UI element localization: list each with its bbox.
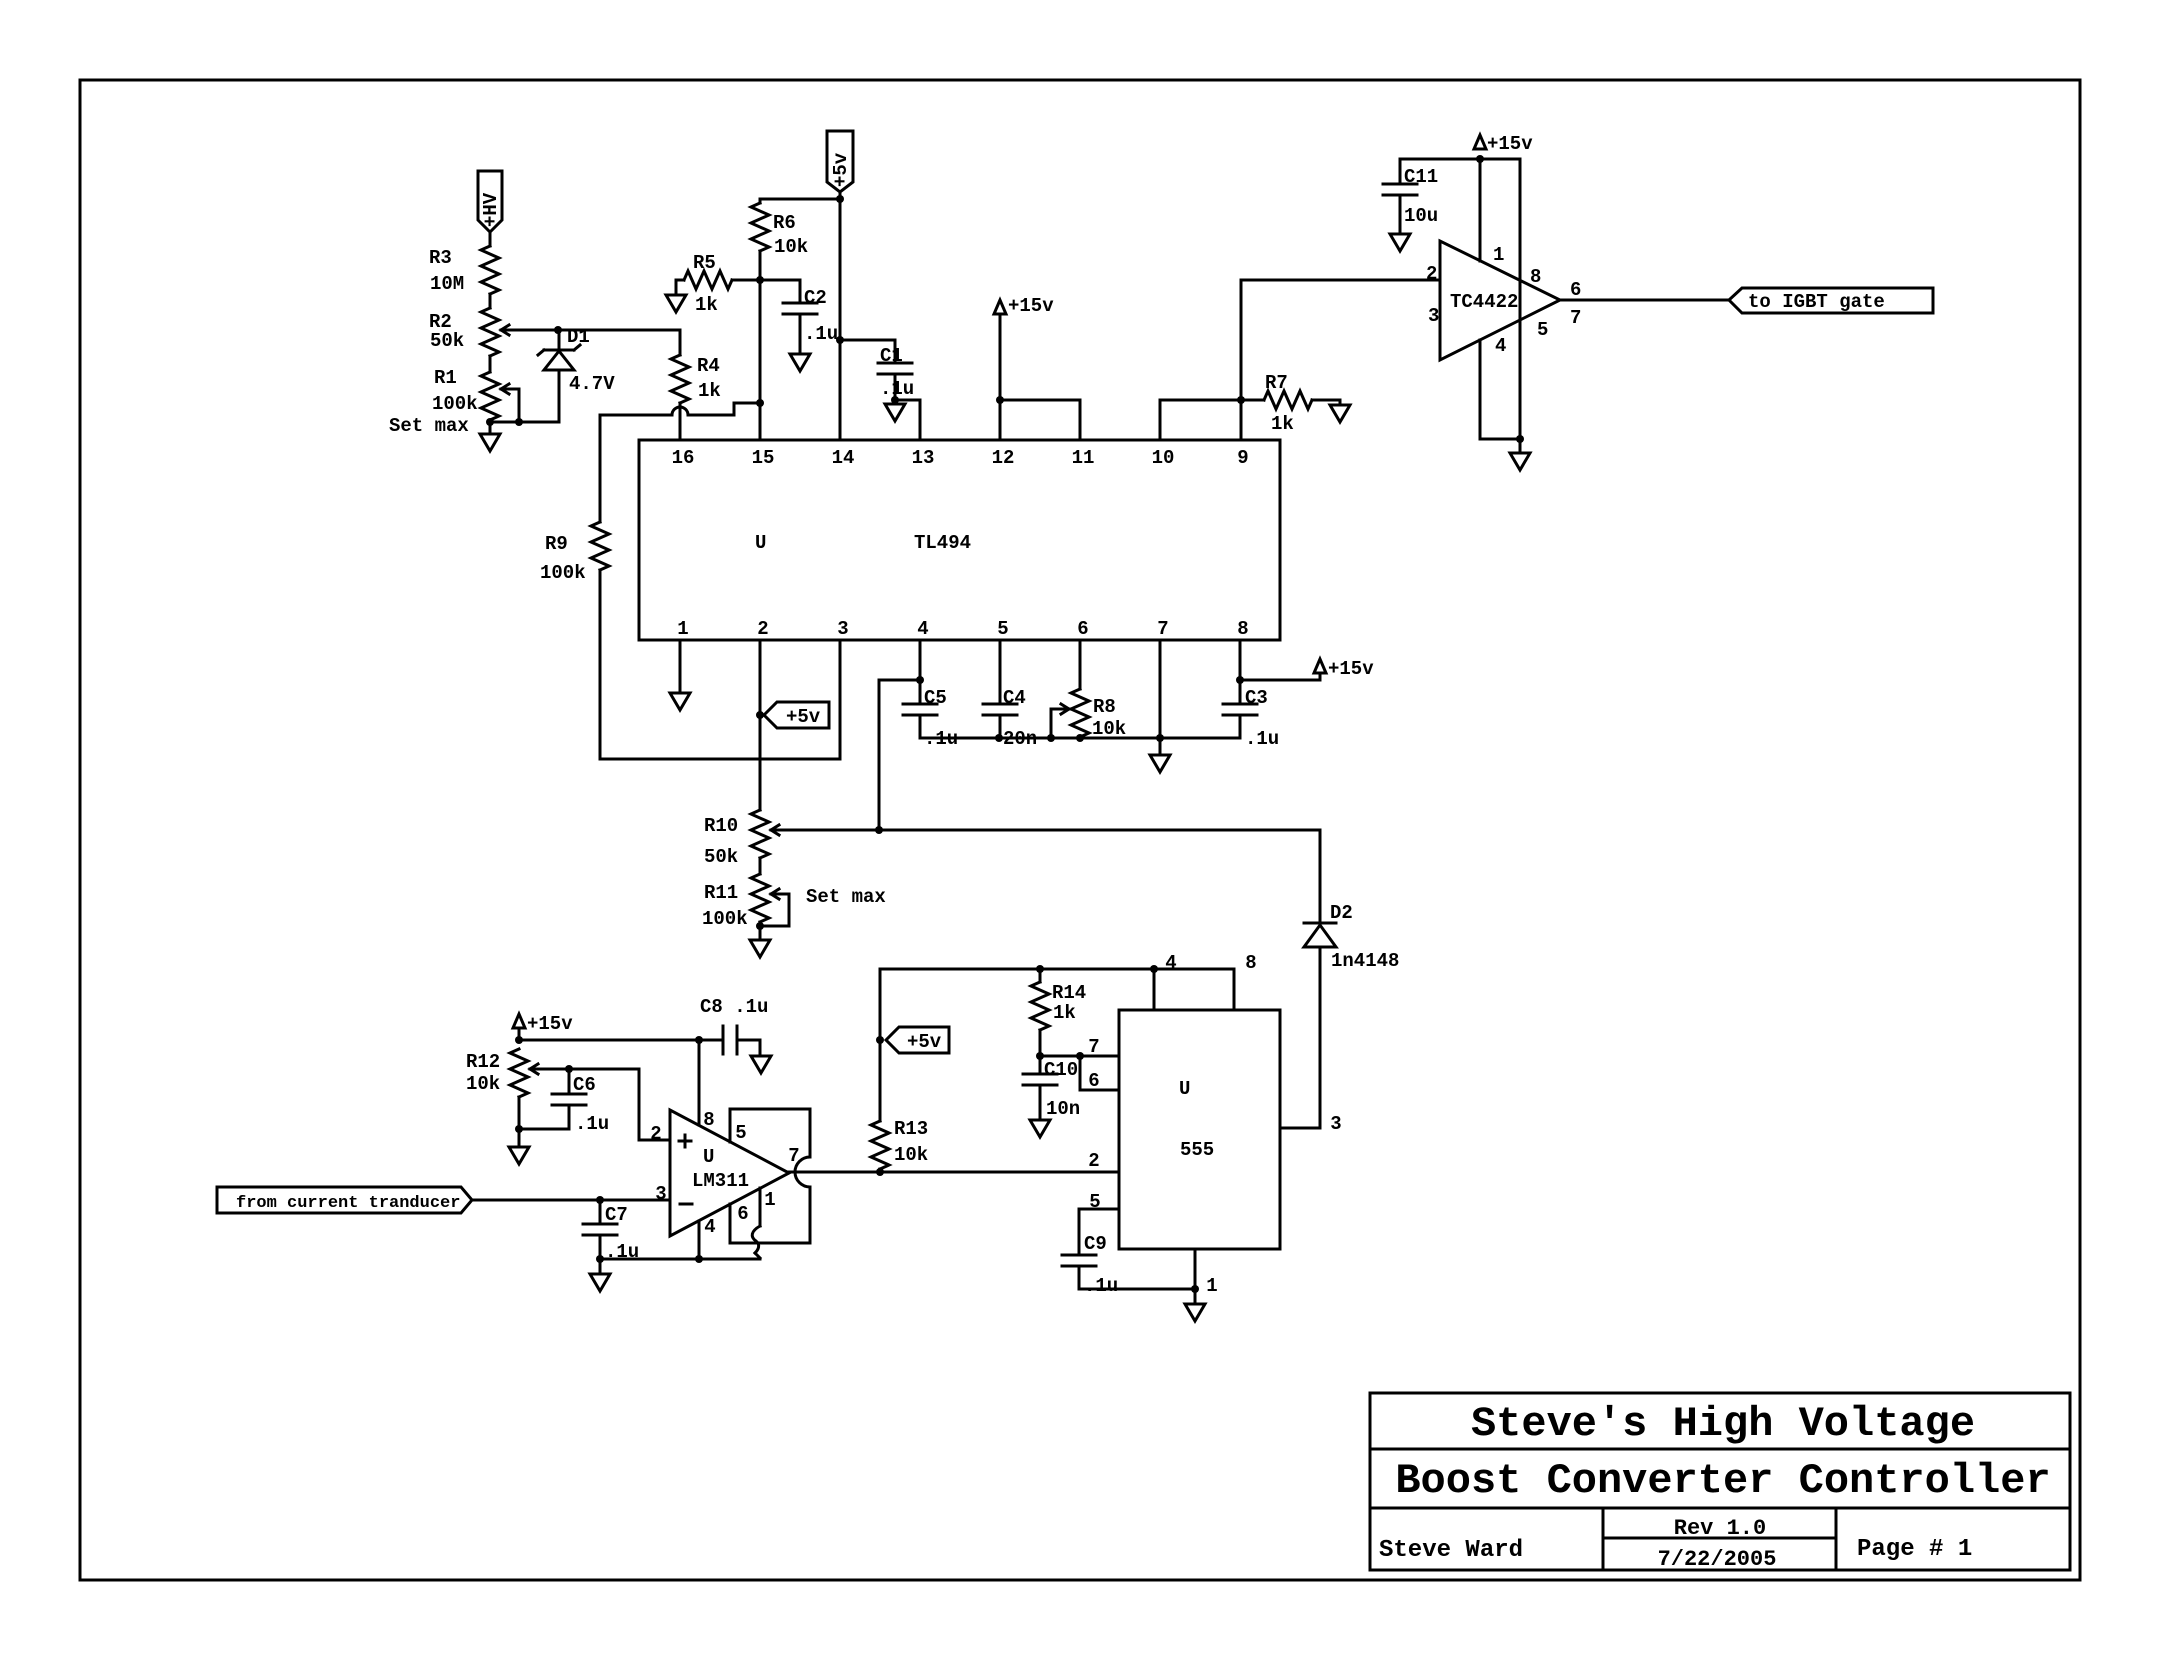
svg-text:C5: C5 <box>924 687 947 709</box>
svg-text:7/22/2005: 7/22/2005 <box>1658 1547 1777 1572</box>
net flag to IGBT gate <box>1729 288 1933 313</box>
svg-text:10k: 10k <box>774 236 808 258</box>
svg-text:C3: C3 <box>1245 687 1268 709</box>
svg-text:3: 3 <box>1330 1113 1341 1135</box>
wire pin1 to ground <box>679 640 682 693</box>
svg-text:C8 .1u: C8 .1u <box>700 996 768 1018</box>
svg-text:R13: R13 <box>894 1118 928 1140</box>
ground <box>1185 1304 1205 1321</box>
resistor R9 <box>540 415 609 584</box>
capacitor C6 <box>519 1069 609 1135</box>
IC U TL494 <box>639 440 1280 640</box>
svg-text:1: 1 <box>677 618 688 640</box>
capacitor C1 <box>836 336 914 404</box>
svg-text:10k: 10k <box>1092 718 1126 740</box>
U 555 pin numbers <box>1088 952 1341 1297</box>
svg-text:R3: R3 <box>429 247 452 269</box>
svg-text:Steve Ward: Steve Ward <box>1379 1537 1523 1564</box>
svg-text:D1: D1 <box>567 326 590 348</box>
svg-text:R14: R14 <box>1052 982 1086 1004</box>
wire pin4 branch <box>879 680 920 830</box>
wire R11 wiper to bottom <box>756 894 789 940</box>
resistor R14 <box>1031 969 1086 1060</box>
svg-text:R9: R9 <box>545 533 568 555</box>
capacitor C2 <box>760 280 838 354</box>
svg-text:8: 8 <box>1245 952 1256 974</box>
svg-text:.1u: .1u <box>575 1113 609 1135</box>
wire LM311 balance bracket pins 5 6 1 <box>730 1109 810 1258</box>
svg-text:C7: C7 <box>605 1204 628 1226</box>
svg-text:2: 2 <box>757 618 768 640</box>
svg-text:7: 7 <box>1157 618 1168 640</box>
wire pin9 to TC4422 input <box>1241 280 1440 440</box>
ground <box>666 295 686 312</box>
ground <box>790 354 810 371</box>
svg-text:3: 3 <box>655 1183 666 1205</box>
capacitor C3 <box>1223 640 1279 750</box>
svg-text:TC4422: TC4422 <box>1450 291 1518 313</box>
capacitor C9 <box>1062 1209 1199 1297</box>
wire +15v rail <box>519 1036 723 1044</box>
svg-text:100k: 100k <box>540 562 586 584</box>
power +15v at TC4422 <box>1400 133 1533 163</box>
potentiometer R8 <box>1051 640 1126 740</box>
svg-text:3: 3 <box>1428 305 1439 327</box>
buffer U TC4422 <box>1440 241 1560 360</box>
svg-text:1: 1 <box>1206 1275 1217 1297</box>
capacitor C7 <box>583 1200 639 1263</box>
svg-text:14: 14 <box>832 447 855 469</box>
ground <box>1150 755 1170 772</box>
wire pin15 net vertical <box>756 251 764 440</box>
wire 555 pin2 <box>880 1171 1119 1174</box>
ground <box>751 1056 771 1073</box>
wire <box>489 294 492 308</box>
capacitor C4 <box>983 640 1037 750</box>
svg-text:100k: 100k <box>702 908 748 930</box>
potentiometer R12 <box>466 1049 538 1097</box>
svg-text:1: 1 <box>1493 244 1504 266</box>
svg-text:8: 8 <box>1530 266 1541 288</box>
wire LM311 ground rail <box>600 1255 760 1263</box>
svg-text:C6: C6 <box>573 1074 596 1096</box>
wire pin2 down <box>756 640 764 810</box>
resistor R4 <box>671 355 721 403</box>
comparator U LM311 <box>670 1110 789 1236</box>
svg-text:TL494: TL494 <box>914 532 971 554</box>
svg-text:C1: C1 <box>880 345 903 367</box>
svg-text:20n: 20n <box>1003 728 1037 750</box>
wire ground rail <box>920 734 1240 742</box>
wire R9 to pin15 with hop over pin16 <box>600 403 760 415</box>
capacitor C5 <box>903 640 958 750</box>
wire input to LM311 pin3 <box>472 1196 670 1204</box>
svg-text:LM311: LM311 <box>692 1170 749 1192</box>
wire R5 left to ground <box>676 280 684 295</box>
svg-text:4: 4 <box>1495 335 1506 357</box>
svg-text:U: U <box>1179 1078 1190 1100</box>
zener diode D1 4.7V <box>538 326 615 422</box>
ground <box>480 434 500 451</box>
resistor R13 <box>871 1118 928 1172</box>
ground <box>1030 1120 1050 1137</box>
svg-text:+5v: +5v <box>786 706 821 728</box>
svg-text:12: 12 <box>992 447 1015 469</box>
svg-text:1n4148: 1n4148 <box>1331 950 1399 972</box>
wire LM311 pin4 <box>698 1221 701 1259</box>
svg-text:C11: C11 <box>1404 166 1438 188</box>
wire R9 bottom to pin3 <box>600 570 840 759</box>
wire LM311 output <box>789 1168 1119 1176</box>
svg-text:from current tranducer: from current tranducer <box>236 1194 460 1213</box>
capacitor C10 <box>1023 1056 1080 1120</box>
svg-text:U: U <box>703 1146 714 1168</box>
svg-text:Steve's High Voltage: Steve's High Voltage <box>1471 1400 1975 1448</box>
svg-text:13: 13 <box>912 447 935 469</box>
ground <box>590 1259 610 1291</box>
net flag +5v at pin2 <box>764 702 829 728</box>
svg-text:9: 9 <box>1237 447 1248 469</box>
svg-text:+HV: +HV <box>480 192 502 227</box>
svg-text:R5: R5 <box>693 252 716 274</box>
wire 555 pin3 to D2 <box>1280 1127 1320 1130</box>
svg-text:50k: 50k <box>430 330 464 352</box>
svg-text:Set max: Set max <box>389 415 469 437</box>
wire R12 bottom to ground <box>515 1097 523 1147</box>
svg-text:6: 6 <box>737 1203 748 1225</box>
wire 555 pin4 pin8 supply <box>1154 969 1234 1010</box>
resistor R5 <box>684 252 732 316</box>
svg-text:D2: D2 <box>1330 902 1353 924</box>
potentiometer R1 <box>432 367 509 420</box>
wire R6 top to +5v <box>760 199 840 203</box>
svg-text:10k: 10k <box>466 1073 500 1095</box>
svg-text:R8: R8 <box>1093 696 1116 718</box>
wire LM311 pin8 <box>698 1040 701 1125</box>
wire R10 wiper to D2 <box>771 826 1320 834</box>
potentiometer R10 <box>704 810 779 868</box>
svg-text:7: 7 <box>1570 307 1581 329</box>
svg-text:1k: 1k <box>695 294 718 316</box>
wire pin7 to rail <box>1159 640 1162 755</box>
svg-text:5: 5 <box>735 1122 746 1144</box>
svg-text:Page # 1: Page # 1 <box>1857 1536 1972 1563</box>
svg-text:15: 15 <box>752 447 775 469</box>
svg-text:50k: 50k <box>704 846 738 868</box>
svg-text:2: 2 <box>1426 263 1437 285</box>
svg-text:8: 8 <box>1237 618 1248 640</box>
net flag +5v at R13 <box>886 1027 949 1053</box>
svg-text:R4: R4 <box>697 355 720 377</box>
svg-text:to IGBT gate: to IGBT gate <box>1748 291 1885 313</box>
svg-text:6: 6 <box>1077 618 1088 640</box>
svg-text:R7: R7 <box>1265 372 1288 394</box>
svg-text:10M: 10M <box>430 273 464 295</box>
svg-text:100k: 100k <box>432 393 478 415</box>
wire <box>489 356 492 372</box>
U TL494 pin numbers <box>672 447 1249 640</box>
svg-text:11: 11 <box>1072 447 1095 469</box>
wire TC4422 pin8/5 <box>1516 159 1524 443</box>
svg-text:10n: 10n <box>1046 1098 1080 1120</box>
U TC4422 pin numbers <box>1426 244 1581 357</box>
svg-text:1k: 1k <box>698 380 721 402</box>
wire R14 bottom to 555 pins 7 6 <box>1040 1052 1119 1090</box>
svg-text:5: 5 <box>997 618 1008 640</box>
svg-text:555: 555 <box>1180 1139 1214 1161</box>
svg-text:R11: R11 <box>704 882 738 904</box>
svg-text:R1: R1 <box>434 367 457 389</box>
capacitor C11 <box>1383 159 1438 234</box>
svg-text:.1u: .1u <box>804 323 838 345</box>
svg-text:7: 7 <box>1088 1036 1099 1058</box>
svg-text:10u: 10u <box>1404 205 1438 227</box>
ground <box>1510 453 1530 470</box>
svg-text:+15v: +15v <box>527 1013 573 1035</box>
svg-text:8: 8 <box>703 1109 714 1131</box>
svg-text:1: 1 <box>764 1189 775 1211</box>
svg-text:+15v: +15v <box>1008 295 1054 317</box>
svg-text:R12: R12 <box>466 1051 500 1073</box>
ground <box>885 400 905 421</box>
svg-text:Rev 1.0: Rev 1.0 <box>1674 1516 1766 1541</box>
svg-text:3: 3 <box>837 618 848 640</box>
potentiometer R2 <box>429 308 509 356</box>
svg-text:10: 10 <box>1152 447 1175 469</box>
svg-text:.1u: .1u <box>1245 728 1279 750</box>
svg-text:16: 16 <box>672 447 695 469</box>
svg-text:6: 6 <box>1570 279 1581 301</box>
resistor R7 <box>1241 372 1340 435</box>
svg-text:Set max: Set max <box>806 886 886 908</box>
svg-text:1k: 1k <box>1053 1002 1076 1024</box>
svg-text:4: 4 <box>1165 952 1176 974</box>
wire TC4422 pin4 to ground <box>1480 340 1520 453</box>
wire R5 right to pin15 net <box>732 276 764 284</box>
svg-text:+5v: +5v <box>907 1031 942 1053</box>
node Set max <box>389 415 558 437</box>
timer U 555 <box>1119 1010 1280 1249</box>
ground <box>670 693 690 710</box>
ground <box>509 1147 529 1164</box>
diode D2 1n4148 <box>1304 830 1399 1128</box>
junction <box>554 326 562 334</box>
svg-text:C9: C9 <box>1084 1233 1107 1255</box>
wire C1 node to pin13 <box>895 400 920 440</box>
ground <box>1330 405 1350 422</box>
svg-text:5: 5 <box>1537 319 1548 341</box>
svg-text:6: 6 <box>1088 1070 1099 1092</box>
svg-text:+15v: +15v <box>1487 133 1533 155</box>
power flag +HV <box>478 171 502 246</box>
power +15v at R12 <box>513 1013 573 1044</box>
wire R12 wiper to LM311 pin2 <box>530 1065 670 1140</box>
wire R2 wiper to R4/pin16 <box>501 330 680 355</box>
svg-text:C10: C10 <box>1044 1059 1078 1081</box>
wire R1 wiper <box>501 389 519 422</box>
wire pin10 to pin9 net <box>1160 396 1245 440</box>
svg-text:10k: 10k <box>894 1144 928 1166</box>
svg-text:4: 4 <box>704 1216 715 1238</box>
svg-text:+5v: +5v <box>830 152 852 187</box>
svg-text:.1u: .1u <box>880 378 914 400</box>
svg-text:.1u: .1u <box>1084 1275 1118 1297</box>
svg-text:+15v: +15v <box>1328 658 1374 680</box>
wire pin12 to pin11 <box>1000 400 1080 440</box>
wire R4 to pin16 <box>679 403 682 440</box>
wire +5v to pin14 <box>839 199 842 440</box>
U LM311 pin numbers <box>650 1109 799 1238</box>
resistor R6 <box>751 203 808 258</box>
wire TC4422 output <box>1560 299 1729 302</box>
resistor R3 <box>429 246 499 295</box>
svg-text:Boost Converter Controller: Boost Converter Controller <box>1395 1457 2050 1505</box>
net flag from current tranducer <box>217 1187 472 1213</box>
svg-text:1k: 1k <box>1271 413 1294 435</box>
wire 555 pin1 to ground <box>1194 1249 1197 1304</box>
power +15v at pin8 <box>1240 658 1374 680</box>
wire TC4422 pin1 supply <box>1479 159 1482 261</box>
svg-text:R6: R6 <box>773 212 796 234</box>
svg-text:C4: C4 <box>1003 687 1026 709</box>
ground <box>1390 234 1410 251</box>
svg-text:R10: R10 <box>704 815 738 837</box>
power flag +5v <box>827 131 853 203</box>
svg-text:C2: C2 <box>804 287 827 309</box>
wire +5v net R13 <box>876 965 1234 1121</box>
svg-text:4: 4 <box>917 618 928 640</box>
svg-text:4.7V: 4.7V <box>569 373 615 395</box>
power +15v at pin12 <box>994 295 1054 440</box>
potentiometer R11 <box>702 874 886 930</box>
svg-text:U: U <box>755 532 766 554</box>
svg-text:2: 2 <box>650 1123 661 1145</box>
ground <box>750 940 770 957</box>
title block <box>1370 1393 2070 1572</box>
capacitor C8 .1u <box>700 996 768 1056</box>
wire <box>759 858 762 874</box>
svg-text:2: 2 <box>1088 1150 1099 1172</box>
